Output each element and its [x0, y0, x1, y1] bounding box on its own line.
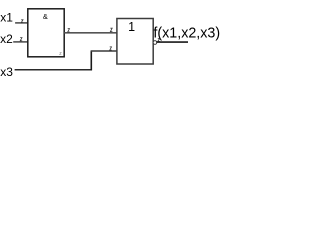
wire OR output [156, 41, 188, 43]
wire x1 to AND input [15, 22, 28, 24]
pin mark on OR bottom input [110, 47, 112, 50]
svg-text:1: 1 [128, 20, 135, 34]
svg-text:x2: x2 [0, 32, 13, 46]
pin mark on x2 input [20, 38, 22, 41]
svg-text:x3: x3 [0, 65, 13, 79]
wire x3 vertical rise [90, 51, 92, 70]
OR gate U2 body [117, 19, 153, 65]
pin mark on OR output [158, 39, 160, 42]
wire x3 horizontal run [15, 69, 92, 71]
pin mark on AND output [68, 29, 70, 32]
pin mark on OR top input [110, 28, 112, 31]
svg-text:f(x1,x2,x3): f(x1,x2,x3) [153, 25, 220, 41]
pin mark on x1 input [21, 20, 23, 23]
wire x2 to AND input [13, 41, 28, 43]
AND gate U1 body [28, 9, 64, 57]
faint pin label inside AND gate [60, 52, 62, 54]
wire AND output to OR input (node between gates) [64, 32, 117, 34]
wire x3 to OR bottom input [91, 50, 117, 52]
output node circle on OR output [153, 41, 157, 45]
svg-text:x1: x1 [0, 10, 13, 24]
svg-text:&: & [43, 12, 48, 21]
